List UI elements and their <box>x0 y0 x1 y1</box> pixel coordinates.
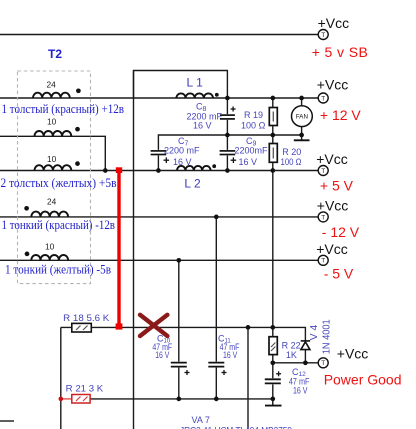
wire R21 node <box>72 398 273 400</box>
fan M1 <box>292 106 313 127</box>
T2 dashed box <box>18 71 91 284</box>
red highlight wire <box>117 170 120 327</box>
svg-text:T: T <box>321 32 325 39</box>
svg-text:Power Good: Power Good <box>324 371 402 387</box>
winding 5 (10, -5v) <box>31 255 68 260</box>
svg-text:10: 10 <box>45 242 55 252</box>
svg-text:16 V: 16 V <box>155 350 169 360</box>
wire top +5vSB <box>0 34 318 36</box>
svg-text:100 Ω: 100 Ω <box>241 120 266 130</box>
svg-text:16 V: 16 V <box>223 350 237 360</box>
junction R22 bottom / PG wire <box>270 360 275 365</box>
phase dot winding3 <box>75 161 80 166</box>
capacitor C12 <box>265 379 281 383</box>
svg-text:16 V: 16 V <box>193 121 212 131</box>
red junction dot R21 <box>59 397 64 402</box>
phase dot winding5 <box>25 252 30 257</box>
svg-text:2 толстых (желтых) +5в: 2 толстых (желтых) +5в <box>1 176 117 190</box>
junction C7 / +5V rail <box>156 168 161 173</box>
junction node248 / R18 wire <box>246 325 251 330</box>
terminal +5vSB <box>318 30 328 40</box>
svg-text:R 19: R 19 <box>244 110 263 120</box>
svg-text:T: T <box>321 258 325 265</box>
terminal +12V <box>318 93 328 103</box>
ground (fan) <box>294 139 310 141</box>
junction C8-C9 / gnd node <box>225 133 230 138</box>
capacitor C8 <box>220 115 235 119</box>
winding 1 (24, +12v) <box>33 93 70 98</box>
svg-text:VA 7: VA 7 <box>192 415 210 425</box>
wire -5V line <box>0 259 318 261</box>
svg-text:1N 4001: 1N 4001 <box>322 319 333 354</box>
winding 2 (10) <box>35 131 72 136</box>
svg-text:- 12 V: - 12 V <box>322 224 360 240</box>
svg-text:1 тонкий (желтый) -5в: 1 тонкий (желтый) -5в <box>5 263 111 277</box>
terminal -5V <box>318 255 328 265</box>
svg-text:T: T <box>321 360 325 367</box>
capacitor C7 <box>151 151 167 155</box>
capacitor C9 <box>220 151 236 155</box>
wire winding2 drop <box>0 136 105 170</box>
junction R22 top / R18 wire <box>270 325 275 330</box>
phase dot winding4 <box>24 206 29 211</box>
winding 4 (24, -12v) <box>31 212 68 217</box>
phase dot L1 <box>215 93 219 97</box>
winding 3 (10, +5v) <box>35 165 72 170</box>
wire power good <box>304 350 306 363</box>
terminal power good <box>318 358 328 368</box>
junction FAN bottom / gnd node <box>299 133 304 138</box>
svg-text:JRC3 41 UCM TL494 MB3759: JRC3 41 UCM TL494 MB3759 <box>180 425 292 429</box>
svg-text:R 18 5.6 K: R 18 5.6 K <box>63 313 109 323</box>
svg-text:R 21 3 K: R 21 3 K <box>66 384 104 394</box>
wire bottom stub <box>0 420 14 422</box>
junction R19 bottom / gnd node <box>270 133 275 138</box>
junction FAN top / +12V <box>299 96 304 101</box>
phase dot winding2 <box>75 127 80 132</box>
wire top rail <box>134 71 228 99</box>
resistor R22 <box>269 337 277 355</box>
diode V4 <box>301 341 310 350</box>
terminal -12V <box>318 212 328 222</box>
junction V4 anode / PG wire <box>303 360 308 365</box>
phase dot winding1 <box>76 88 81 93</box>
junction C8 top / +12V <box>225 96 230 101</box>
junction R20 bottom / +5V rail <box>270 168 275 173</box>
svg-text:+Vcc: +Vcc <box>317 76 349 92</box>
svg-text:R 22: R 22 <box>282 340 301 350</box>
junction C11 bottom / R21 wire <box>214 397 219 402</box>
resistor R21 <box>61 398 72 400</box>
junction winding2 / +5V rail <box>103 168 108 173</box>
svg-text:L 1: L 1 <box>187 75 204 89</box>
wire gnd node <box>158 135 301 150</box>
wire R18 node <box>61 327 306 341</box>
wire C11 branch <box>215 217 217 362</box>
junction C11 / -12V line <box>214 215 219 220</box>
resistor R20 <box>269 144 277 163</box>
junction C9 / +5V rail <box>225 168 230 173</box>
wire node 248 branch <box>247 327 249 429</box>
svg-text:FAN: FAN <box>296 113 308 120</box>
svg-text:100 Ω: 100 Ω <box>281 157 302 167</box>
svg-text:+ 5 V: + 5 V <box>320 177 354 193</box>
svg-text:T: T <box>321 214 325 221</box>
svg-text:+Vcc: +Vcc <box>318 15 350 31</box>
svg-text:2200mF: 2200mF <box>235 146 269 156</box>
svg-text:+ 12 V: + 12 V <box>320 107 362 123</box>
svg-text:- 5 V: - 5 V <box>324 265 354 281</box>
ground (C12) <box>265 405 282 407</box>
junction C10 / -5V line <box>176 258 181 263</box>
inductor L1 <box>176 93 213 98</box>
wire C8 C9 branch <box>226 98 228 114</box>
svg-text:+Vcc: +Vcc <box>317 197 349 213</box>
svg-text:L 2: L 2 <box>184 177 201 191</box>
wire right rail <box>272 98 274 378</box>
resistor R18 <box>72 323 92 332</box>
resistor R19 <box>269 108 277 126</box>
capacitor C10 <box>171 363 187 367</box>
wire +5V rail <box>0 170 318 172</box>
wire fan stub <box>301 98 303 140</box>
svg-text:+ 5 v SB: + 5 v SB <box>312 44 369 60</box>
wire left rail <box>133 71 135 429</box>
X mark (C10 crossed out) <box>140 315 167 336</box>
terminal +5V <box>318 166 328 176</box>
junction R19 top / +12V <box>270 96 275 101</box>
svg-text:T: T <box>321 95 325 102</box>
svg-text:1 толстый (красный) +12в: 1 толстый (красный) +12в <box>2 102 125 116</box>
svg-text:1 тонкий (красный) -12в: 1 тонкий (красный) -12в <box>2 218 116 232</box>
svg-text:T: T <box>321 168 325 175</box>
svg-text:+Vcc: +Vcc <box>337 346 369 362</box>
svg-text:R 20: R 20 <box>282 147 301 157</box>
phase dot L2 <box>212 164 216 168</box>
svg-text:16 V: 16 V <box>239 157 258 167</box>
wire +12V line <box>0 97 318 99</box>
wire left branch <box>60 327 62 429</box>
svg-text:1K: 1K <box>286 350 297 360</box>
svg-text:10: 10 <box>47 154 57 164</box>
svg-text:16 V: 16 V <box>173 157 192 167</box>
svg-text:+Vcc: +Vcc <box>316 151 348 167</box>
junction C10 bottom / R21 wire <box>176 397 181 402</box>
svg-text:T2: T2 <box>48 47 62 61</box>
svg-text:10: 10 <box>47 117 57 127</box>
capacitor C11 <box>208 363 224 367</box>
inductor L2 <box>177 166 211 171</box>
wire -12V line <box>0 216 318 218</box>
svg-text:2200 mF: 2200 mF <box>164 146 200 156</box>
junction C12 top / R21 wire <box>270 397 275 402</box>
svg-text:16 V: 16 V <box>293 385 308 395</box>
svg-text:+Vcc: +Vcc <box>316 241 348 257</box>
svg-text:24: 24 <box>47 197 57 207</box>
svg-text:24: 24 <box>47 80 57 90</box>
wire C10 branch <box>178 260 180 361</box>
